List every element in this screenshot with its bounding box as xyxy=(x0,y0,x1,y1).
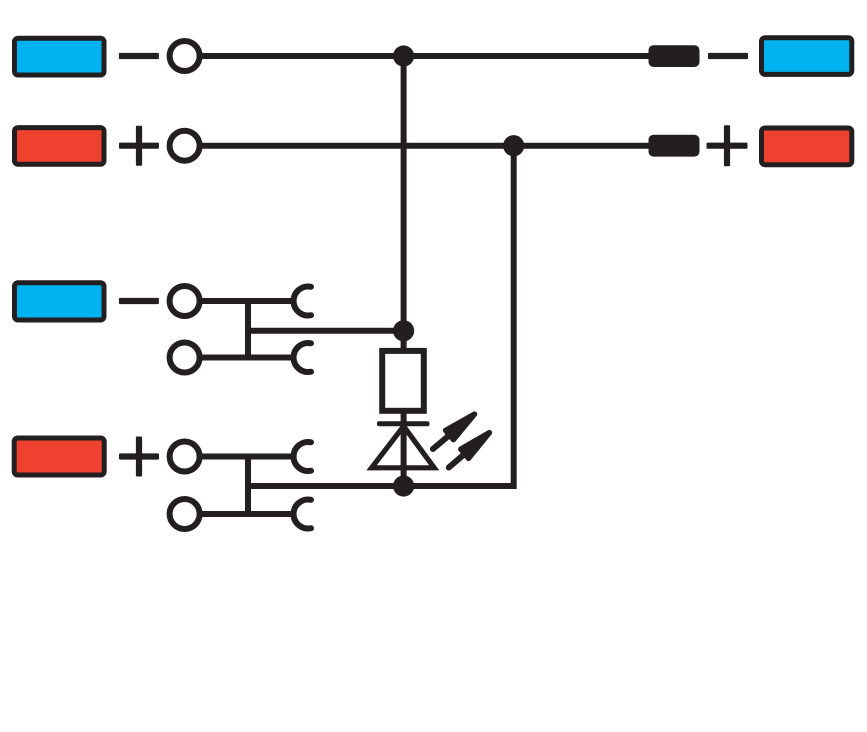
terminal blue left row3 xyxy=(15,283,105,320)
terminal red right row2 xyxy=(762,128,852,165)
plus label row2 left xyxy=(119,126,159,166)
terminal circle row3 lower xyxy=(170,343,200,373)
terminal circle row2 xyxy=(170,131,200,161)
terminal circle row4 lower xyxy=(170,499,200,529)
wire row4 lower xyxy=(199,511,294,517)
clamp contact row3 upper xyxy=(294,287,311,316)
clamp contact row4 upper xyxy=(294,442,311,471)
terminal red left row4 xyxy=(14,438,104,475)
terminal circle row4 upper xyxy=(170,442,200,472)
terminal circle row1 xyxy=(170,41,200,71)
LED D1 cathode bar xyxy=(377,421,430,426)
wire vertical from node A through resistor branch xyxy=(401,56,407,486)
wire row3 middle branch to node C xyxy=(248,328,404,334)
plus label row2 right xyxy=(707,125,748,166)
marker sleeve row1 (minus conductor) xyxy=(649,45,700,67)
clamp contact row3 lower xyxy=(294,343,311,372)
LED D1 emission arrow 1 xyxy=(433,414,475,449)
wire row4 fork bar xyxy=(245,454,251,517)
resistor R1 xyxy=(382,351,424,411)
minus label row3 xyxy=(119,298,159,304)
terminal blue left row1 xyxy=(15,38,105,75)
node C junction dot xyxy=(393,320,414,341)
wire row3 fork bar xyxy=(245,298,251,360)
minus label row1 right xyxy=(708,53,748,59)
wire bottom run and vertical riser to row2 xyxy=(245,146,513,486)
wire row3 upper xyxy=(199,298,294,304)
terminal circle row3 upper xyxy=(170,286,200,316)
terminal blue right row1 xyxy=(762,38,852,75)
clamp contact row4 lower xyxy=(294,500,311,529)
marker sleeve row2 (plus conductor) xyxy=(649,135,700,157)
wire row3 lower xyxy=(199,355,294,361)
terminal red left row2 xyxy=(15,128,105,165)
wire row1 horizontal xyxy=(197,53,651,59)
LED D1 triangle xyxy=(372,426,435,468)
wire row2 horizontal xyxy=(197,143,651,149)
node A junction dot row1 xyxy=(393,45,414,66)
LED D1 emission arrow 2 xyxy=(449,433,490,468)
plus label row4 xyxy=(119,437,159,477)
node D junction dot bottom xyxy=(393,475,414,496)
node B junction dot row2 xyxy=(503,135,524,156)
minus label row1 left xyxy=(119,53,159,59)
wire row4 upper xyxy=(199,454,294,460)
